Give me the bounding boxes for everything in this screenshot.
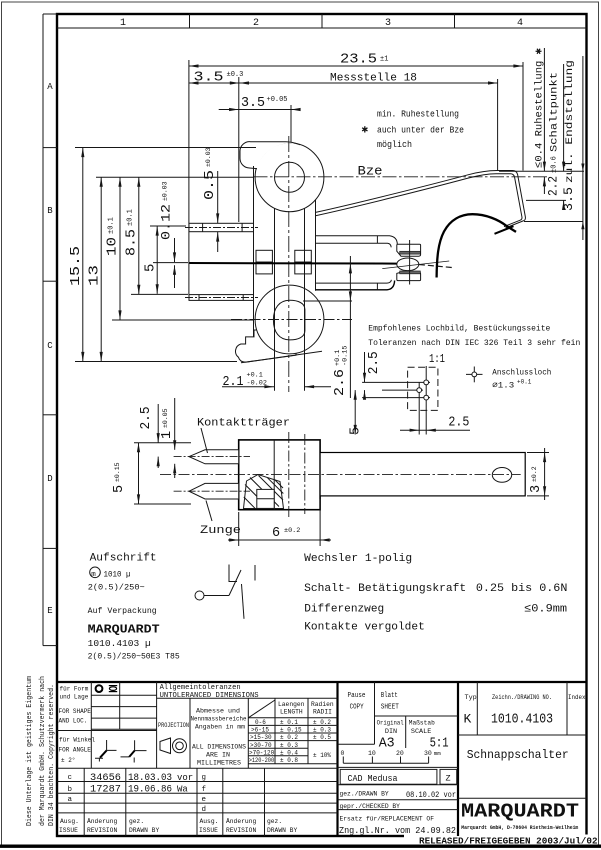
hole 3 [424, 395, 429, 400]
svg-text:+0.1: +0.1 [517, 379, 532, 386]
svg-text:der Marquardt GmbH. Schutzverm: der Marquardt GmbH. Schutzvermerk nach [39, 676, 47, 826]
svg-text:Zng.gl.Nr. vom 24.09.82: Zng.gl.Nr. vom 24.09.82 [339, 826, 456, 836]
svg-text:C: C [47, 341, 53, 351]
svg-text:LENGTH: LENGTH [280, 709, 303, 716]
svg-text:±0.2: ±0.2 [284, 527, 300, 535]
dimension 5 ±0.15 [134, 442, 191, 444]
extension line x497.6 [497, 79, 499, 170]
svg-text:min. Ruhestellung: min. Ruhestellung [377, 110, 459, 120]
dimension 23.5 ±1 [189, 65, 523, 67]
svg-text:+0.05: +0.05 [267, 96, 288, 104]
svg-text:3: 3 [529, 485, 544, 493]
svg-text:Empfohlenes Lochbild, Bestücku: Empfohlenes Lochbild, Bestückungsseite [368, 324, 550, 334]
svg-text:Änderung: Änderung [226, 817, 256, 825]
terminal pin 1 (top) [189, 223, 254, 231]
svg-text:3.5: 3.5 [194, 70, 224, 86]
CAD Medusa box [340, 769, 437, 784]
svg-text:± 0.5: ± 0.5 [313, 734, 331, 741]
arm hole [492, 468, 511, 483]
svg-text:g: g [202, 774, 207, 782]
contact window left lower [256, 262, 272, 274]
cam flat centreline [304, 434, 306, 514]
svg-text:0: 0 [341, 750, 345, 757]
ear bump top-left [240, 142, 300, 169]
horizontal centreline [160, 473, 521, 475]
svg-text:Wa: Wa [177, 785, 188, 795]
svg-text:vor: vor [177, 773, 193, 783]
svg-text:A3: A3 [379, 736, 395, 752]
svg-text:± 0.2: ± 0.2 [313, 719, 331, 726]
svg-text:Messstelle 18: Messstelle 18 [330, 73, 417, 85]
right section: typ / drawing no / index [476, 682, 478, 735]
svg-text:±0.05: ±0.05 [162, 408, 169, 428]
body left edge [253, 166, 255, 337]
svg-text:Angaben in mm: Angaben in mm [195, 724, 245, 731]
extension line x291 [290, 105, 292, 142]
svg-text:für Form: für Form [60, 686, 89, 693]
svg-text:f: f [202, 786, 207, 794]
svg-text:2.1: 2.1 [223, 374, 244, 390]
svg-text:3.5: 3.5 [561, 187, 576, 211]
svg-text:COPY: COPY [350, 704, 365, 712]
svg-text:CAD Medusa: CAD Medusa [348, 773, 398, 784]
terminal pin 3 (bottom) [189, 295, 254, 301]
svg-text:30: 30 [424, 750, 432, 757]
svg-text:2.5: 2.5 [448, 416, 469, 431]
svg-text:ISSUE: ISSUE [199, 827, 218, 834]
svg-text:5: 5 [112, 485, 127, 493]
pivot boss circle top [255, 143, 324, 212]
svg-text:REVISION: REVISION [87, 827, 117, 834]
actuator arm plan [320, 453, 525, 496]
svg-text:2.5: 2.5 [367, 351, 382, 374]
svg-text:Kontakte vergoldet: Kontakte vergoldet [304, 622, 425, 634]
svg-text:± 0.3: ± 0.3 [280, 742, 298, 749]
svg-text:± 0.15: ± 0.15 [280, 727, 302, 734]
circuit symbol: changeover switch [195, 591, 204, 600]
body inner line a [274, 208, 276, 347]
lever Bze outer line [316, 171, 526, 228]
svg-text:PROJECTION: PROJECTION [158, 722, 189, 729]
dimension 2.5 vertical [364, 352, 366, 382]
angle projection glyph 1 [95, 740, 117, 762]
svg-text:>6-15: >6-15 [251, 727, 269, 734]
svg-text:Z: Z [446, 774, 451, 784]
svg-text:Laengen: Laengen [278, 701, 305, 708]
svg-text:±0.15: ±0.15 [114, 462, 121, 482]
svg-text:c: c [68, 774, 73, 782]
horizontal centerline top [254, 176, 549, 178]
svg-text:6: 6 [272, 526, 280, 541]
pivot hole top [275, 162, 305, 192]
svg-text:± 2°: ± 2° [61, 757, 75, 764]
svg-text:Aufschrift: Aufschrift [90, 553, 157, 565]
svg-text:2: 2 [253, 18, 259, 29]
right terminal lower plate [397, 272, 421, 280]
tolerance table [247, 698, 249, 768]
svg-text:0.5: 0.5 [202, 170, 218, 200]
dimension 3.5 ±0.3 and Messstelle 18 [189, 82, 498, 84]
svg-text:Radien: Radien [311, 701, 334, 708]
cad row divider [338, 766, 459, 768]
title block outer top edge [57, 681, 587, 683]
svg-text:K: K [464, 712, 472, 727]
svg-text:MILLIMETRES: MILLIMETRES [197, 760, 241, 767]
svg-text:≤0.4 Ruhestellung ✱: ≤0.4 Ruhestellung ✱ [534, 47, 546, 168]
svg-text:0.12: 0.12 [159, 204, 174, 240]
svg-text:Auf Verpackung: Auf Verpackung [88, 606, 157, 616]
position symbol [96, 685, 103, 692]
symmetry symbol [109, 687, 116, 691]
dimension 0.12 ±0.03 [174, 238, 176, 262]
svg-text:A: A [47, 82, 53, 92]
thin diagonal through contact [382, 261, 449, 269]
dimension 1 ±0.05 [174, 398, 176, 450]
svg-text:∅1.3: ∅1.3 [492, 381, 514, 391]
svg-text:1010.4103: 1010.4103 [491, 713, 553, 728]
lower boss circle [255, 285, 324, 354]
svg-text:Maßstab: Maßstab [409, 720, 435, 728]
svg-text:10: 10 [368, 750, 376, 757]
svg-text:Allgemeintoleranzen: Allgemeintoleranzen [160, 684, 241, 692]
svg-text:13: 13 [87, 265, 103, 286]
svg-text:>120-200: >120-200 [249, 757, 275, 764]
extension line pin left [188, 60, 190, 295]
svg-text:Differenzweg: Differenzweg [304, 604, 384, 616]
svg-text:Ersatz für/REPLACEMENT OF: Ersatz für/REPLACEMENT OF [340, 816, 435, 823]
registered mark symbol [90, 567, 101, 578]
svg-text:08.10.02 vor: 08.10.02 vor [406, 790, 456, 800]
svg-text:15.5: 15.5 [68, 246, 84, 286]
svg-text:RADII: RADII [313, 709, 332, 716]
svg-text:AND LOC.: AND LOC. [59, 718, 88, 725]
symbol grid [119, 682, 121, 729]
section divider verticals [336, 682, 338, 836]
angle projection glyph 2 [121, 740, 147, 762]
svg-text:>15-30: >15-30 [250, 734, 272, 741]
dimension 8.5 ±0.1 [138, 177, 140, 294]
svg-text:±1: ±1 [380, 56, 388, 64]
svg-text:Zunge: Zunge [200, 525, 241, 537]
svg-text:a: a [68, 796, 73, 804]
svg-text:2(0.5)/250~50E3 T85: 2(0.5)/250~50E3 T85 [88, 653, 180, 662]
dimension 15.5 [82, 148, 84, 362]
projection cell [189, 698, 191, 768]
dimension <=0.4 Ruhestellung [543, 48, 545, 171]
svg-text:und Lage: und Lage [60, 694, 89, 701]
svg-text:Wechsler 1-polig: Wechsler 1-polig [304, 553, 412, 565]
right terminal upper arm [316, 236, 398, 245]
svg-text:für Winkel: für Winkel [59, 737, 95, 744]
svg-text:± 10%: ± 10% [313, 752, 331, 759]
svg-text:±0.1: ±0.1 [127, 209, 135, 226]
contact rivet oval [397, 258, 419, 271]
svg-text:-0.15: -0.15 [342, 346, 350, 366]
switch blade [229, 570, 241, 596]
body right edge [315, 200, 317, 291]
dimension 6 ±0.2 [238, 512, 240, 546]
zone letter column [42, 14, 44, 646]
contact window right lower [295, 262, 312, 274]
svg-text:± 0.4: ± 0.4 [280, 749, 298, 756]
svg-text:1: 1 [160, 431, 175, 439]
svg-text:DRAWN BY: DRAWN BY [129, 827, 159, 834]
svg-text:MARQUARDT: MARQUARDT [461, 801, 579, 823]
svg-text:DIN 34 beachten. Copyright res: DIN 34 beachten. Copyright reserved. [48, 684, 56, 826]
dimension 0.5 ±0.03 [217, 171, 219, 223]
revision table left [83, 768, 85, 836]
right terminal lower arm [316, 280, 392, 283]
released stamp [404, 835, 597, 845]
svg-text:3: 3 [385, 18, 391, 29]
svg-text:FOR SHAPE: FOR SHAPE [59, 708, 92, 715]
svg-text:±0.2: ±0.2 [531, 466, 538, 482]
dimension 2.6 [303, 300, 352, 302]
svg-text:>70-120: >70-120 [249, 749, 275, 756]
svg-text:REVISION: REVISION [226, 827, 256, 834]
contact NC [229, 565, 237, 582]
dimension 2.5 [157, 404, 159, 443]
dimension 3 ±0.2 [527, 452, 549, 454]
svg-text:± 0.8: ± 0.8 [280, 757, 298, 764]
body internal line [273, 440, 275, 510]
contact NO [254, 565, 256, 581]
Z box [440, 769, 457, 784]
svg-text:20: 20 [396, 750, 404, 757]
zunge inner block [257, 489, 274, 508]
svg-text:Pause: Pause [348, 692, 366, 700]
svg-text:34656: 34656 [90, 773, 121, 784]
hole 1 [424, 380, 429, 385]
svg-text:2.2: 2.2 [546, 176, 561, 196]
dimension 5 [156, 226, 158, 294]
svg-text:± 0.1: ± 0.1 [280, 719, 298, 726]
rivet centerline [409, 240, 411, 285]
svg-text:1010 µ: 1010 µ [104, 571, 131, 580]
svg-text:±0.03: ±0.03 [162, 181, 169, 201]
svg-text:1:1: 1:1 [429, 352, 445, 366]
upper contact layer [400, 251, 421, 254]
svg-text:ISSUE: ISSUE [59, 827, 78, 834]
svg-text:10: 10 [105, 237, 121, 256]
lower cam hole [273, 300, 305, 340]
svg-text:18.03.03: 18.03.03 [128, 773, 172, 784]
contact blade (middle) [189, 262, 398, 265]
hole 2 [417, 388, 422, 393]
svg-text:Bze: Bze [358, 165, 383, 179]
svg-text:gez.: gez. [129, 818, 144, 825]
horizontal centerline bottom [231, 319, 352, 321]
svg-text:2.6: 2.6 [332, 369, 348, 396]
right terminal upper plate [397, 244, 421, 256]
svg-text:-0.02: -0.02 [247, 380, 267, 388]
zone number dividers [189, 14, 191, 28]
svg-text:8.5: 8.5 [124, 229, 140, 256]
spring wire thick curve [437, 214, 516, 277]
Anschlussloch symbol [466, 373, 483, 375]
svg-text:m: m [91, 571, 96, 579]
svg-text:Ausg.: Ausg. [200, 818, 219, 825]
svg-text:E: E [47, 606, 52, 616]
lower contact layer [400, 271, 421, 274]
svg-text:D: D [47, 474, 52, 484]
svg-text:Abmesse und: Abmesse und [196, 708, 240, 715]
left extension lines [75, 147, 256, 149]
svg-text:+0.1: +0.1 [247, 372, 263, 380]
svg-text:Anschlussloch: Anschlussloch [492, 368, 551, 378]
svg-text:Nennmassbereiche: Nennmassbereiche [191, 716, 247, 723]
hole centre lines [425, 366, 427, 435]
svg-text:MARQUARDT: MARQUARDT [88, 623, 160, 637]
dimension 2.5 horizontal [400, 429, 470, 431]
svg-text:d: d [202, 806, 207, 814]
svg-text:Zeichn./DRAWING NO.: Zeichn./DRAWING NO. [492, 694, 552, 702]
svg-text:auch unter der Bze: auch unter der Bze [377, 126, 464, 136]
svg-text:≤0.9mm: ≤0.9mm [524, 604, 567, 616]
hatched zunge section [244, 475, 284, 509]
bottom black bar [0, 845, 601, 848]
svg-text:5: 5 [349, 427, 364, 435]
svg-text:2.5: 2.5 [139, 407, 154, 430]
svg-text:23.5: 23.5 [340, 52, 377, 68]
switch body tail bottom-left [236, 330, 296, 362]
footprint dashed outline [408, 367, 438, 410]
projection symbol [160, 738, 171, 754]
svg-text:DRAWN BY: DRAWN BY [267, 827, 297, 834]
wire common [204, 595, 229, 597]
svg-text:0.25 bis 0.6N: 0.25 bis 0.6N [476, 583, 567, 595]
wire down [242, 584, 245, 619]
lever Bze inner line [316, 174, 522, 227]
svg-text:Original: Original [377, 720, 404, 728]
svg-text:SCALE: SCALE [411, 728, 431, 736]
lower prong (Zunge) [189, 483, 239, 499]
svg-text:2(0.5)/250~: 2(0.5)/250~ [88, 583, 145, 593]
svg-text:zul. Endstellung: zul. Endstellung [564, 60, 576, 183]
lever tip slash [495, 226, 514, 234]
svg-text:Ausg.: Ausg. [60, 818, 79, 825]
svg-text:±0.03: ±0.03 [205, 147, 212, 167]
svg-text:Toleranzen nach DIN IEC 326 Te: Toleranzen nach DIN IEC 326 Teil 3 sehr … [368, 338, 580, 348]
svg-text:Kontaktträger: Kontaktträger [197, 418, 290, 430]
zone letter dividers [43, 147, 57, 149]
middle section: pause/copy [374, 682, 376, 744]
svg-text:Index: Index [568, 694, 586, 702]
svg-text:17287: 17287 [90, 785, 121, 796]
svg-text:e: e [202, 796, 207, 804]
svg-text:Typ: Typ [465, 694, 477, 702]
scale ruler [343, 762, 428, 764]
svg-text:4: 4 [517, 18, 523, 29]
svg-text:± 0.2: ± 0.2 [280, 734, 298, 741]
carrier body plan [239, 440, 320, 510]
contact window left upper [256, 250, 272, 262]
svg-text:Marquardt GmbH, D-78604 Riethe: Marquardt GmbH, D-78604 Rietheim-Weilhei… [461, 824, 578, 831]
vertical centerline [288, 136, 290, 392]
svg-text:gez./DRAWN BY: gez./DRAWN BY [340, 791, 389, 798]
extension line x238.8 [238, 77, 240, 222]
svg-text:ARE IN: ARE IN [206, 752, 230, 759]
svg-text:gez.: gez. [267, 818, 282, 825]
dimension 13 [100, 177, 102, 361]
svg-text:✱: ✱ [362, 125, 369, 137]
dimension 3.5 zul. Endstellung [582, 56, 584, 240]
svg-text:±0.6: ±0.6 [551, 156, 559, 173]
form/lage cell [90, 682, 92, 768]
svg-text:Blatt: Blatt [381, 692, 398, 700]
svg-text:0-6: 0-6 [255, 719, 266, 726]
svg-text:RELEASED/FREIGEGEBEN 2003/Jul/: RELEASED/FREIGEGEBEN 2003/Jul/02 [419, 835, 598, 846]
zone number strip line [57, 27, 587, 29]
svg-text:B: B [47, 206, 53, 216]
svg-text:mm: mm [434, 750, 441, 757]
dimension 10 ±0.1 [119, 177, 121, 320]
svg-text:FOR ANGLE: FOR ANGLE [59, 747, 92, 754]
svg-text:±0.1: ±0.1 [108, 217, 116, 234]
svg-text:± 0.3: ± 0.3 [313, 727, 331, 734]
winkel cell [57, 730, 157, 732]
svg-text:3.5: 3.5 [241, 95, 265, 111]
svg-text:Schnappschalter: Schnappschalter [467, 748, 569, 762]
svg-text:ALL DIMENSIONS: ALL DIMENSIONS [192, 744, 246, 751]
housing bottom diagonal [241, 351, 322, 363]
svg-text:19.06.86: 19.06.86 [128, 785, 172, 796]
svg-text:Schalt- Betätigungskraft: Schalt- Betätigungskraft [304, 583, 466, 595]
svg-text:1010.4103 µ: 1010.4103 µ [88, 638, 151, 649]
dimension 2.2 ±0.6 Schaltpunkt [563, 64, 565, 171]
svg-text:möglich: möglich [377, 140, 412, 150]
svg-text:gepr./CHECKED BY: gepr./CHECKED BY [340, 803, 401, 810]
svg-text:1: 1 [120, 18, 126, 29]
svg-text:b: b [68, 786, 73, 794]
blade dashed continuation [419, 265, 452, 268]
dimension 2.1 [274, 347, 276, 391]
upper prong (Kontakttraeger) [189, 450, 239, 464]
extension line x523 [522, 62, 524, 171]
body inner line c [304, 208, 306, 390]
svg-text:>30-70: >30-70 [250, 742, 272, 749]
svg-text:Änderung: Änderung [87, 817, 117, 825]
right reference lines [499, 170, 584, 172]
divider above revision table [57, 767, 338, 769]
svg-text:Diese Unterlage ist geistiges: Diese Unterlage ist geistiges Eigentum [26, 676, 34, 826]
contact window right upper [295, 250, 312, 262]
vertical centreline [288, 432, 290, 517]
svg-text:SHEET: SHEET [381, 704, 399, 712]
dimension 3.5 +0.05 [219, 109, 300, 111]
dimension 5 vertical [354, 390, 356, 434]
svg-text:Schaltpunkt: Schaltpunkt [549, 72, 561, 152]
svg-text:±0.3: ±0.3 [227, 71, 244, 79]
svg-text:5: 5 [143, 264, 159, 272]
